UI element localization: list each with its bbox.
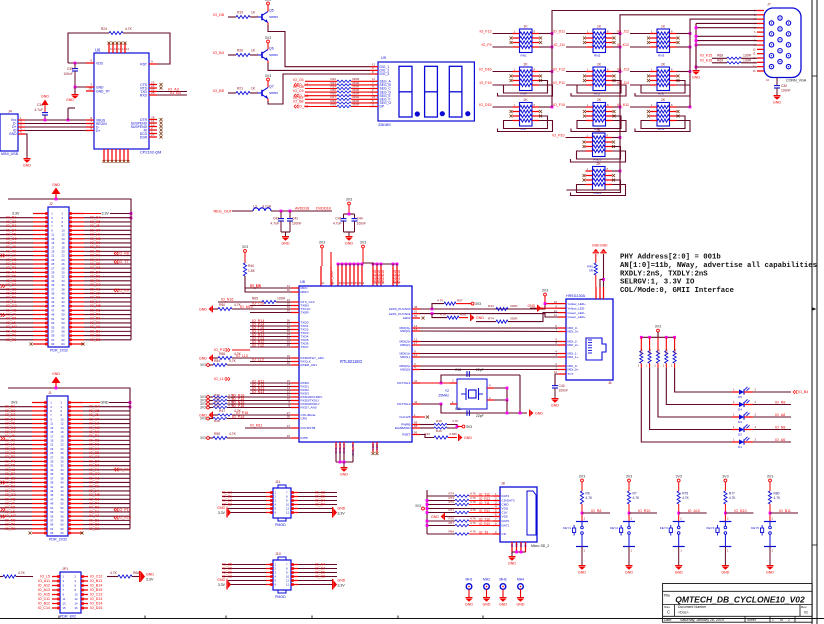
J11 pin row 3 [266,500,273,502]
resistor R29 330R [305,106,337,108]
svg-text:100nF: 100nF [559,389,569,393]
svg-text:RTL8211EG: RTL8211EG [340,359,362,364]
svg-text:13: 13 [63,602,67,606]
PHY U8 top power pins [320,266,322,286]
J2 pin row 7/8 [33,225,48,227]
svg-text:20: 20 [61,438,65,442]
svg-text:4.7K: 4.7K [470,517,476,521]
J10 pin row 3 [266,572,273,574]
svg-text:S8050: S8050 [269,15,278,19]
connector J10 PMOD box [273,560,291,590]
svg-text:Micro SD_2: Micro SD_2 [531,544,549,548]
J11 pin row 1 [266,492,273,494]
J10 pin row 1 [266,564,273,566]
J2 pin row 23/24 [33,259,48,261]
ground U8 bottom [343,462,345,467]
J2 pin row 37/38 [33,288,48,290]
ground KEY1 [581,547,583,566]
sheet border bottom [0,618,824,620]
svg-text:IO_P14: IO_P14 [232,415,244,419]
svg-text:10: 10 [75,593,79,597]
svg-text:21: 21 [51,254,55,258]
J1 row 17 wires and labels [0,473,32,475]
J1 pin row 43/44 [32,490,47,492]
svg-text:GND: GND [338,507,346,511]
svg-text:D1: D1 [738,445,742,449]
svg-text:R77: R77 [729,492,735,496]
svg-text:R42: R42 [424,432,430,436]
J2 row 20 wires and labels [0,297,33,299]
net label IO_K11 [630,106,650,108]
J2 pin row 9/10 [33,229,48,231]
ground filter caps [281,231,290,233]
wire TXER [250,312,291,314]
J2 pin row 61/62 [33,339,48,341]
LED D1 [732,441,739,443]
svg-text:IO_B4: IO_B4 [315,503,325,507]
svg-text:27: 27 [51,266,55,270]
svg-text:RXDLY:2nS, TXDLY:2nS: RXDLY:2nS, TXDLY:2nS [620,270,708,278]
J2 row 12 wires and labels [0,263,33,265]
svg-text:J8: J8 [501,482,505,486]
connector J7 CONN_VGA [764,8,801,78]
svg-text:25: 25 [50,451,54,455]
VGA holes [769,21,773,25]
svg-text:RSET: RSET [402,433,410,437]
svg-text:RN2: RN2 [594,54,600,58]
J1 row 26 wires and labels [0,511,32,513]
svg-text:32: 32 [61,464,65,468]
J2 row 30 wires and labels [0,339,33,341]
RJ45 top shield pins [595,287,597,299]
svg-text:44: 44 [61,489,65,493]
svg-text:56: 56 [62,325,66,329]
resistor R67 4.7K [427,525,455,527]
serpentine wires [577,116,621,129]
svg-text:JP1: JP1 [62,567,68,571]
J1 pin row 33/34 [32,469,47,471]
svg-text:IO_C8: IO_C8 [315,575,325,579]
wire TXD RXD to labels IO_A3 IO_B4 [157,91,187,93]
resistor R80 4.7K [768,491,771,504]
svg-text:R56: R56 [219,352,225,356]
resistor network RN8 2K [593,103,606,127]
J2 chevron in [3,254,5,256]
svg-text:IO_T9: IO_T9 [479,530,488,534]
svg-text:3V3: 3V3 [200,436,206,440]
svg-text:GND: GND [766,571,774,575]
svg-text:15: 15 [50,430,54,434]
LED D4 [732,404,739,406]
net label IO_D11 [566,33,586,35]
svg-text:RST: RST [140,62,147,66]
svg-text:44: 44 [62,300,66,304]
svg-text:Sheet: Sheet [747,618,756,622]
svg-text:4.7K: 4.7K [470,500,476,504]
svg-text:25: 25 [51,262,55,266]
svg-text:45: 45 [50,493,54,497]
svg-text:3.3V: 3.3V [338,512,346,516]
svg-text:45: 45 [51,304,55,308]
svg-text:ENAB/PAD: ENAB/PAD [395,426,411,430]
svg-text:02: 02 [804,611,808,615]
svg-text:18: 18 [62,245,66,249]
svg-text:C44: C44 [357,217,363,221]
svg-text:J6: J6 [608,381,612,385]
J1 pin row 63/64 [32,532,47,534]
svg-text:10: 10 [62,228,66,232]
svg-text:35: 35 [50,472,54,476]
resistor R26 330R [305,95,337,97]
svg-text:R55: R55 [214,432,220,436]
J2 row 22 wires and labels [0,305,33,307]
svg-text:19: 19 [50,438,54,442]
svg-text:32: 32 [62,275,66,279]
J1 pin row 61/62 [32,528,47,530]
no-connect marks RN2 [583,37,586,40]
svg-text:3361BS: 3361BS [378,123,391,127]
svg-text:R46: R46 [436,419,442,423]
connector J8 Micro SD box [500,487,537,542]
svg-text:52: 52 [62,317,66,321]
svg-text:4.7uF: 4.7uF [333,222,342,226]
connector J6 HR911130A box [566,299,613,380]
svg-text:GND: GND [345,242,353,246]
resistor R40 1.5K pull-up [244,253,246,264]
J11 pin row 4 [266,504,273,506]
svg-text:GND: GND [282,242,290,246]
svg-text:56: 56 [414,431,418,435]
svg-text:LED1_PHYAD1: LED1_PHYAD1 [389,312,411,316]
svg-text:3.3V: 3.3V [102,212,110,216]
svg-text:24: 24 [62,258,66,262]
svg-text:U6: U6 [95,48,101,53]
svg-text:PDR_2X32: PDR_2X32 [49,538,67,542]
svg-text:1: 1 [772,618,774,622]
svg-text:R75: R75 [682,492,688,496]
svg-text:IO_T7: IO_T7 [119,260,129,264]
svg-text:52: 52 [61,506,65,510]
svg-text:R31: R31 [648,348,652,353]
svg-text:19: 19 [51,249,55,253]
resistor R45 0R shield [595,254,597,263]
base resistor R21 1K [228,92,236,94]
svg-text:CD: CD [502,532,507,536]
svg-text:R29: R29 [330,102,336,106]
svg-text:S8050: S8050 [269,53,278,57]
svg-text:R?4: R?4 [488,317,494,321]
J2 row 11 wires and labels [0,259,33,261]
no-connect marks RN10 [583,141,586,144]
svg-text:MH2: MH2 [483,578,490,582]
J1 pin row 25/26 [32,452,47,454]
svg-text:D5: D5 [738,395,742,399]
U6 right pins CTS RTS TXD RXD [149,84,157,86]
svg-text:IO_R0: IO_R0 [5,527,15,531]
svg-text:10: 10 [286,575,290,579]
J1 pin row 11/12 [32,423,47,425]
J2 row 25 wires and labels [0,318,33,320]
svg-text:3.3V: 3.3V [146,578,154,582]
svg-text:4.7K: 4.7K [229,432,237,436]
no-connect marks RN6 [647,75,650,78]
svg-text:J11: J11 [275,480,281,484]
svg-text:IO_C9: IO_C9 [293,89,303,93]
wires J4 to U6 [25,119,86,121]
ground below C35 [75,84,86,87]
svg-text:G2: G2 [515,543,519,547]
net label IO_J14 [630,84,650,86]
svg-text:IO_T10: IO_T10 [252,302,264,306]
crystal Y2 25MHz [457,379,487,409]
J1 pin row 23/24 [32,448,47,450]
SD bottom ground pins [511,542,513,552]
svg-text:R66: R66 [133,571,139,575]
J2 right bus [130,214,132,340]
svg-text:MH4: MH4 [517,578,524,582]
svg-text:13: 13 [50,426,54,430]
svg-text:IO_L15: IO_L15 [252,358,264,362]
svg-text:Q7: Q7 [269,85,274,89]
J1 row 1 wires and labels [0,406,32,408]
svg-text:10: 10 [286,503,290,507]
ground SD [509,556,516,557]
wire LED0 to RJ45 Yellow_LED+ [508,304,558,309]
VGA ground bus [696,22,757,24]
svg-text:IO_K15: IO_K15 [700,54,712,58]
svg-text:DSR: DSR [140,135,148,139]
wire LED4 out [753,441,791,443]
J1 pin row 45/46 [32,494,47,496]
svg-text:59: 59 [51,334,55,338]
net label IO_D16 [493,71,513,73]
JP1 pin row 9/10 [52,594,60,596]
connector J1 PDR_2X32 box [47,396,68,536]
wires RN3 outputs [677,33,691,35]
J2 bottom no-connect [30,343,33,346]
svg-text:56: 56 [61,514,65,518]
svg-text:100R: 100R [277,297,286,301]
resistor R56 4.7K RXD0 with GND [212,355,213,362]
svg-text:C35: C35 [67,67,73,71]
svg-text:41: 41 [50,485,54,489]
J2 chevron in [3,284,5,286]
svg-text:GND_TP: GND_TP [96,89,110,93]
svg-text:Saturday, January 26, 2019: Saturday, January 26, 2019 [680,618,724,622]
resistor R27 330R [305,98,337,100]
wire LED1 out [753,404,791,406]
J11 GND 3.3V right [332,507,333,518]
J10 GND 3.3V right [332,579,333,590]
svg-text:26: 26 [287,434,291,438]
svg-text:3V3: 3V3 [200,363,206,367]
resistor R65 100R GTX_CLK [218,301,262,303]
svg-text:Green_LED-: Green_LED- [568,311,585,315]
svg-text:IO_R10: IO_R10 [638,509,650,513]
svg-text:15: 15 [63,606,67,610]
J2 pin row 59/60 [33,335,48,337]
inductor L3 4.7uH [232,210,253,212]
resistor network RN7 2K [520,103,533,127]
svg-text:40: 40 [61,481,65,485]
svg-text:15: 15 [51,241,55,245]
J2 pin row 49/50 [33,314,48,316]
net label IO_F15 [493,84,513,86]
svg-text:R43: R43 [488,304,494,308]
U6 top pins no-connect [108,43,110,53]
svg-text:GND: GND [199,356,207,360]
svg-text:J2: J2 [49,202,53,206]
svg-text:COL/Mode:0, GMII Interface: COL/Mode:0, GMII Interface [620,287,734,295]
svg-text:VSS: VSS [502,515,508,519]
svg-text:IO_D14: IO_D14 [90,602,102,606]
svg-text:GND: GND [535,411,543,415]
svg-text:IO_J13: IO_J13 [617,68,629,72]
svg-text:Date:: Date: [664,618,672,622]
capacitor C40 100nF TCT [555,374,558,385]
svg-text:KEY2: KEY2 [610,526,618,530]
J10 pin row 6 [266,584,273,586]
J2 row 28 wires and labels [0,330,33,332]
svg-text:9: 9 [151,60,153,64]
RJ45 left pins [558,303,566,305]
svg-text:MDI_2+: MDI_2+ [568,343,579,347]
svg-text:58: 58 [414,424,418,428]
svg-text:11: 11 [286,579,289,583]
ground crystal [529,410,530,417]
svg-text:46: 46 [62,304,66,308]
J1 pin row 55/56 [32,515,47,517]
net label IO_R10 [629,512,657,514]
svg-text:IO_J11: IO_J11 [554,43,565,47]
capacitor C43 4.7uF [280,211,282,218]
J2 pin row 29/30 [33,271,48,273]
J2 row 17 wires and labels [0,284,33,286]
SD pins [493,495,500,497]
svg-text:IO_B4: IO_B4 [213,51,225,55]
svg-text:3V3: 3V3 [200,406,206,410]
svg-text:20: 20 [62,249,66,253]
svg-text:IO_K12: IO_K12 [617,43,629,47]
wire PHYRSTB [245,427,291,429]
svg-text:48: 48 [62,308,66,312]
svg-text:35: 35 [51,283,55,287]
svg-text:G4: G4 [524,543,528,547]
svg-text:38: 38 [62,287,66,291]
svg-text:GND: GND [52,183,60,187]
svg-text:38: 38 [61,476,65,480]
svg-text:13: 13 [51,237,55,241]
J2 pin row 35/36 [33,284,48,286]
svg-text:11: 11 [63,597,66,601]
net label IO_D8 [294,94,296,96]
J2 pin row 31/32 [33,276,48,278]
U8 left pins [291,287,299,289]
svg-text:Green_LED+: Green_LED+ [568,315,586,319]
svg-text:55: 55 [51,325,55,329]
svg-text:MDI[0]-: MDI[0]- [400,368,410,372]
resistor network RN9 2K [657,103,670,127]
J1 row 9 wires and labels [0,439,32,441]
svg-text:TXER: TXER [301,311,310,315]
J2 pin row 39/40 [33,292,48,294]
power flag GND 3.3V JP1 [139,571,141,582]
svg-text:C41: C41 [335,217,341,221]
capacitor C11 22pF [466,410,468,416]
ground KEY5 [769,547,771,566]
svg-text:MH3: MH3 [499,578,506,582]
J2 row 29 wires and labels [0,335,33,337]
svg-text:R80: R80 [774,492,780,496]
svg-text:100nF: 100nF [781,89,791,93]
svg-text:R6: R6 [586,492,590,496]
J1 chevron out IO_R15 [114,516,116,518]
svg-text:IO_K16: IO_K16 [700,58,712,62]
J1 pin row 19/20 [32,439,47,441]
svg-text:C40: C40 [559,384,565,388]
J1 chevron in [3,515,5,517]
svg-text:IO_N16: IO_N16 [221,298,233,302]
wire REG_OUT up [330,252,332,266]
J1 pin row 21/22 [32,444,47,446]
resistors R46 4.7K PWRB ENAB [420,424,434,426]
svg-text:28: 28 [62,266,66,270]
wire RXCLK [250,361,291,363]
resistor network RN1 1K [520,29,533,53]
svg-text:R33: R33 [665,348,669,353]
svg-text:4.7uF: 4.7uF [34,108,43,112]
svg-text:GND: GND [23,164,31,168]
svg-text:MDI_3+: MDI_3+ [568,330,579,334]
J1 pin row 27/28 [32,456,47,458]
resistor R22 330R [305,80,337,82]
net label IO_F9 [493,46,513,48]
svg-text:3.3V: 3.3V [218,511,226,515]
svg-text:GND: GND [52,372,60,376]
svg-text:MDI_0+: MDI_0+ [568,368,579,372]
emitter wire Q5 to display DIG_1 [267,23,269,25]
LED D3 [732,416,739,418]
resistor R74 4.7K [427,495,455,497]
svg-text:11: 11 [286,507,289,511]
svg-text:4.7K: 4.7K [470,521,476,525]
svg-text:C34: C34 [37,103,43,107]
svg-text:GND: GND [499,603,507,607]
wires RN2 outputs [613,33,621,35]
J1 row 29 wires and labels [0,524,32,526]
svg-text:LED0_PHYAD0: LED0_PHYAD0 [389,307,411,311]
svg-text:61: 61 [50,527,54,531]
svg-text:CP2102-QM: CP2102-QM [140,151,161,155]
J1 row 25 wires and labels [0,507,32,509]
svg-text:4.7K: 4.7K [729,496,736,500]
J10 pin row 2 [266,568,273,570]
svg-text:J10: J10 [275,552,281,556]
display digit 3 decimal point [465,111,470,116]
JP1 pin row 13/14 [52,603,60,605]
J11 pin row 6 [266,512,273,514]
svg-text:RXD7_AN0: RXD7_AN0 [301,406,317,410]
J2 top rail [8,199,131,214]
svg-text:14: 14 [75,602,79,606]
wires CKXTAL to crystal [420,382,457,384]
svg-text:62: 62 [61,527,65,531]
svg-text:48: 48 [61,497,65,501]
svg-text:GND: GND [217,506,225,510]
svg-text:J4: J4 [8,110,12,114]
svg-text:47: 47 [51,308,55,312]
svg-text:GND: GND [101,401,109,405]
